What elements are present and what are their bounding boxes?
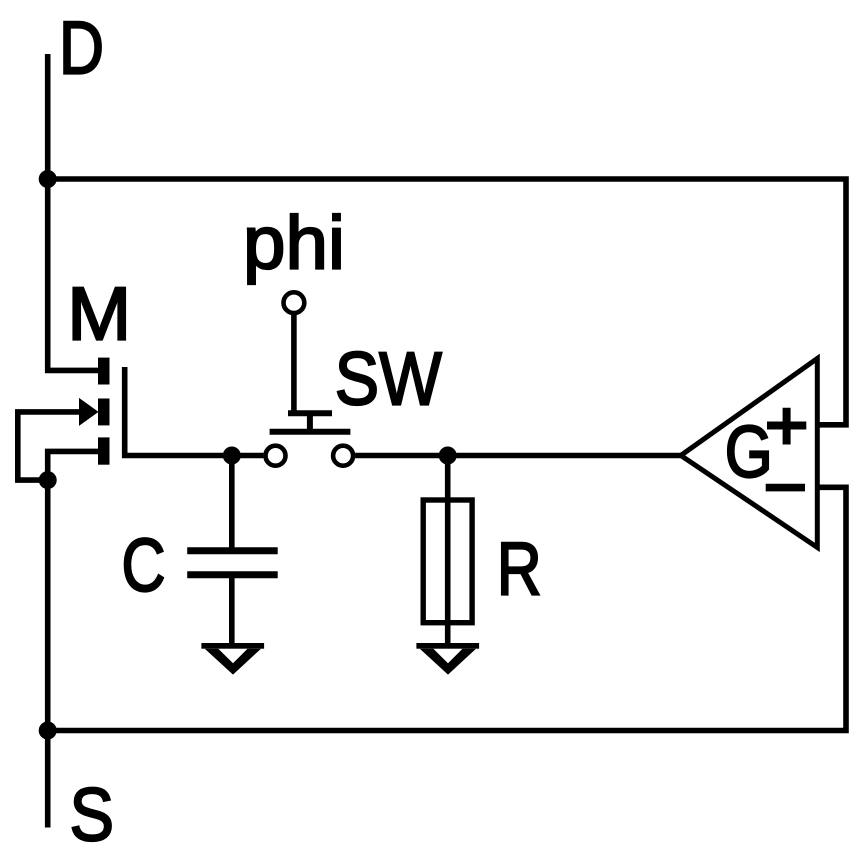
wire: D terminal vertical down to drain corner, then right to drain bar: [48, 54, 100, 370]
resistor R lead (through box): [445, 456, 451, 649]
wire: bulk connection (left loop to source): [18, 412, 86, 480]
op-amp + input sign: [767, 408, 806, 445]
svg-text:C: C: [122, 523, 166, 607]
node: junction dot at D vertical and top feedback wire: [39, 170, 57, 188]
svg-text:D: D: [59, 6, 104, 90]
op-amp G triangle (points left): [681, 359, 818, 548]
svg-text:G: G: [725, 412, 773, 493]
wire: top feedback wire, right vertical, + input stub: [48, 179, 846, 425]
switch SW left contact: [266, 446, 286, 466]
wire: main wire right contact to amplifier output apex: [355, 453, 681, 459]
node: junction dot bottom wire / S vertical: [39, 722, 57, 740]
svg-text:M: M: [67, 271, 131, 355]
svg-text:R: R: [497, 527, 542, 611]
op-amp - input sign: [766, 484, 805, 492]
ground symbol below resistor: [416, 643, 479, 649]
capacitor C top plate: [187, 547, 278, 554]
transistor M source bar: [98, 437, 110, 464]
switch SW actuator T-bar: [288, 410, 332, 416]
node: junction dot capacitor tap: [223, 447, 241, 465]
svg-text:SW: SW: [335, 336, 442, 420]
wire: source horizontal and S terminal vertical: [48, 451, 100, 827]
capacitor C bottom lead: [229, 575, 235, 648]
switch SW actuator plate: [270, 429, 351, 435]
capacitor C bottom plate: [187, 571, 278, 578]
transistor M gate line (joins main wire): [125, 367, 264, 456]
transistor M bulk arrow head: [79, 398, 99, 426]
resistor R box: [423, 500, 472, 623]
transistor M drain bar: [98, 358, 110, 385]
svg-text:phi: phi: [243, 200, 345, 284]
wire: - input stub, right vertical down, bottom wire: [48, 487, 846, 730]
transistor M bulk bar: [98, 399, 110, 426]
switch SW right contact: [333, 446, 353, 466]
node: junction dot bulk/source: [39, 471, 57, 489]
svg-text:S: S: [70, 773, 115, 857]
switch SW actuator link: [307, 413, 313, 432]
node: junction dot resistor tap: [439, 447, 457, 465]
ground symbol below capacitor: [201, 643, 264, 649]
phi terminal circle: [284, 292, 305, 313]
capacitor C top lead: [229, 456, 235, 551]
wire: phi control line: [291, 314, 297, 414]
